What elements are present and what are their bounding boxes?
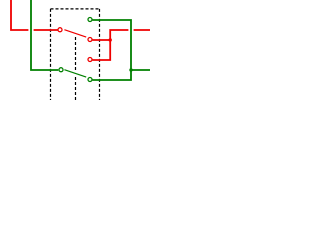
switch SW2 lever casing [64,70,86,77]
wire green feed (vertical + horizontal to SW2 common) [31,0,58,70]
wire green return net (top horizontal, vertical, bottom horizontal to SW2 lower contact) [92,20,131,80]
switch SW1 upper contact terminal [88,18,92,22]
wire red branch from SW1 lower contact [92,39,110,41]
switch SW2 lever [64,70,86,77]
switch SW1 lever casing [64,30,86,37]
mechanical coupling dashed line lower run [75,76,77,100]
switch SW2 lower contact terminal [88,78,92,82]
switch SW2 upper contact terminal [88,58,92,62]
switch SW1 lever [64,30,86,37]
wire red output net (top horizontal with crossing gap, riser, to SW2 upper contact) [92,29,150,60]
junction red node [109,38,112,41]
switch SW1 common terminal [58,28,62,32]
enclosure dashed box left edge [50,9,52,100]
enclosure dashed box right edge [99,9,101,100]
junction green node [129,68,132,71]
wire red feed (vertical + horizontal to SW1 common, gap at green crossing) [11,0,58,30]
switch SW2 common terminal [59,68,63,72]
switch SW1 lower contact terminal [88,38,92,42]
wire green branch to right edge [131,69,150,71]
enclosure dashed box top edge [51,8,100,10]
mechanical coupling dashed line upper run [75,35,77,70]
